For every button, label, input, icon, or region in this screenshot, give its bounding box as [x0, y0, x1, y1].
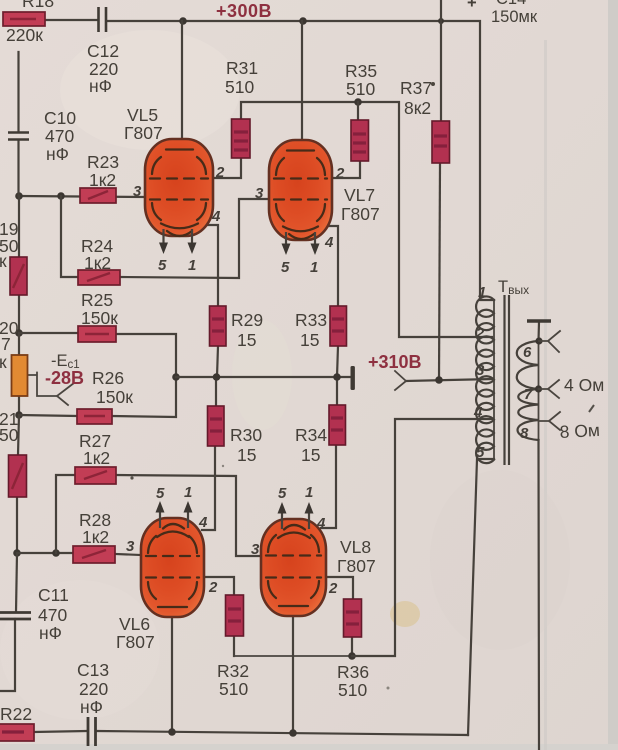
wire left rail C10 to R23 node [17, 141, 19, 196]
svg-text:С14: С14 [496, 0, 526, 8]
svg-text:4: 4 [473, 404, 483, 421]
svg-text:150к: 150к [81, 308, 118, 328]
wire C11 bottom lead [0, 619, 15, 691]
tick above 8 Ohm [589, 405, 594, 412]
terminal bar center node [351, 366, 355, 390]
svg-text:R32: R32 [217, 661, 249, 681]
svg-text:4: 4 [211, 208, 221, 225]
svg-text:5: 5 [156, 485, 165, 502]
node R23 rail junction [15, 192, 23, 200]
wire +310V line to tap3 [406, 379, 492, 381]
resistor R34 [329, 405, 346, 445]
svg-text:R22: R22 [0, 704, 32, 724]
svg-text:VL5: VL5 [127, 105, 158, 125]
svg-text:нФ: нФ [80, 697, 103, 717]
svg-text:15: 15 [300, 330, 319, 350]
node R35 top junction [354, 98, 362, 106]
tube VL6 [141, 501, 204, 617]
wire R36 bottom lead [351, 637, 353, 656]
wire rail R20 to R26 node [18, 396, 20, 415]
ground chassis symbol [527, 319, 551, 323]
svg-text:Г807: Г807 [116, 632, 155, 652]
wire anode VL6 [171, 610, 173, 732]
svg-text:VL8: VL8 [340, 537, 371, 557]
wire R28 right lead [115, 554, 141, 555]
svg-text:C12: C12 [87, 41, 119, 61]
svg-text:2: 2 [475, 325, 485, 342]
wire VL8 pin2 to R36 [326, 577, 353, 599]
svg-text:4: 4 [198, 514, 208, 531]
node VL8 anode junction [289, 729, 297, 737]
node center R29/R30 junction [213, 373, 221, 381]
svg-text:нФ: нФ [46, 144, 69, 164]
svg-text:470: 470 [45, 126, 74, 146]
wire anode VL5 [181, 21, 183, 150]
svg-text:1к2: 1к2 [84, 253, 111, 273]
node R28 rail junction [13, 549, 21, 557]
svg-text:VL7: VL7 [344, 185, 375, 205]
svg-text:R31: R31 [226, 58, 258, 78]
wire R32/R36 bus to transformer tap4 [234, 655, 352, 657]
node C14/R37 junction [438, 18, 444, 24]
svg-text:4: 4 [324, 234, 334, 251]
wire R32 bottom lead [233, 636, 235, 656]
svg-text:нФ: нФ [39, 623, 62, 643]
svg-text:к: к [0, 251, 7, 271]
svg-text:+: + [467, 0, 477, 12]
svg-text:6: 6 [523, 344, 532, 361]
resistor R19 [10, 257, 27, 295]
svg-text:50: 50 [0, 425, 19, 445]
wire R30 bottom to VL6 pin4 [202, 446, 215, 530]
resistor R25 [78, 326, 116, 342]
resistor R18 [3, 12, 45, 26]
capacitor C11 [0, 613, 31, 620]
svg-text:8: 8 [520, 425, 529, 442]
svg-text:2: 2 [215, 164, 225, 181]
svg-text:R35: R35 [345, 61, 377, 81]
svg-text:2: 2 [328, 580, 338, 597]
svg-text:3: 3 [251, 541, 260, 558]
svg-text:15: 15 [301, 445, 320, 465]
speck [222, 465, 224, 467]
wire VL5 pin2 to R31 [213, 158, 241, 178]
wire secondary bottom lead [537, 440, 540, 750]
svg-text:VL6: VL6 [119, 614, 150, 634]
svg-text:5: 5 [281, 259, 290, 276]
wire R29 bottom to center node [217, 346, 218, 377]
terminal arrow +310V feed [395, 371, 406, 390]
svg-text:8 Ом: 8 Ом [559, 420, 600, 442]
resistor R29 [210, 306, 227, 346]
resistor R20 [12, 355, 28, 396]
node R25 rail junction [15, 329, 23, 337]
svg-text:нФ: нФ [89, 76, 112, 96]
wire R19 to R25 node [18, 295, 20, 333]
svg-text:3: 3 [476, 362, 485, 379]
wire R30 top lead [215, 377, 217, 406]
speck [387, 687, 390, 690]
node secondary 4 Ohm junction [535, 385, 542, 392]
wire bus riser to tap4 [352, 419, 492, 656]
node +310V junction [435, 376, 443, 384]
resistor R30 [208, 406, 225, 446]
svg-text:R30: R30 [230, 425, 262, 445]
svg-text:к: к [0, 352, 7, 372]
resistor R31 [232, 119, 251, 158]
transformer Tvyh secondary winding [538, 341, 540, 440]
svg-text:R26: R26 [92, 368, 124, 388]
svg-text:150к: 150к [96, 387, 133, 407]
svg-text:5: 5 [476, 444, 485, 461]
wire center node line [176, 376, 352, 378]
svg-text:8к2: 8к2 [404, 98, 431, 118]
svg-text:7: 7 [524, 386, 533, 403]
wire C14 lead [440, 0, 442, 21]
tube VL7 [269, 140, 332, 255]
svg-text:2: 2 [208, 579, 218, 596]
wire VL5 pin4 to R29 [208, 225, 218, 306]
svg-text:C11: C11 [38, 585, 69, 605]
transformer Tvyh primary winding [493, 300, 495, 459]
wire R34 bottom to VL8 pin4 [321, 445, 336, 528]
svg-text:R37: R37 [400, 78, 432, 98]
wire rail R26 node to R21 [18, 415, 19, 455]
wire left rail R23 node to R19 [18, 196, 20, 257]
wire R34 top lead [336, 377, 338, 405]
wire R27 to VL8 pin3 [116, 475, 261, 556]
resistor R22 [0, 724, 34, 741]
resistor R23 [80, 188, 116, 203]
svg-text:5: 5 [158, 257, 167, 274]
wire R25 right to center node [116, 334, 176, 377]
wire anode VL7 [301, 21, 303, 151]
node anode VL7 junction [299, 17, 307, 25]
svg-text:R33: R33 [295, 310, 327, 330]
svg-text:1: 1 [310, 259, 318, 276]
wire R24 branch drop [61, 196, 78, 277]
wire VL7 pin4 to R33 [327, 226, 338, 306]
wire rail R25 node to R20 [18, 333, 20, 355]
svg-text:15: 15 [237, 445, 256, 465]
svg-text:3: 3 [133, 183, 142, 200]
svg-text:Г807: Г807 [341, 204, 380, 224]
svg-text:220: 220 [79, 679, 108, 699]
svg-text:2: 2 [335, 165, 345, 182]
svg-text:3: 3 [255, 185, 264, 202]
terminal arrow -28V input [27, 373, 74, 406]
svg-text:5: 5 [278, 485, 287, 502]
svg-text:+310В: +310В [368, 352, 422, 372]
svg-text:7: 7 [1, 334, 11, 354]
svg-text:4 Ом: 4 Ом [564, 375, 604, 395]
wire +300V rail to transformer pin1 [107, 21, 494, 300]
svg-text:Г807: Г807 [124, 123, 163, 143]
capacitor C10 [8, 133, 29, 140]
svg-text:1к2: 1к2 [83, 448, 110, 468]
resistor R36 [344, 599, 362, 637]
resistor R37 [432, 121, 450, 163]
wire R26 line [19, 415, 77, 416]
terminal arrow output top [539, 331, 560, 352]
capacitor C12 [99, 7, 107, 32]
svg-text:1к2: 1к2 [89, 170, 116, 190]
svg-text:1: 1 [478, 284, 486, 301]
svg-text:+300В: +300В [216, 1, 272, 21]
svg-text:R23: R23 [87, 152, 119, 172]
wire R37 bottom lead [439, 163, 440, 380]
wire R26 right to center node [112, 377, 176, 417]
wire R21 to R28 node [16, 497, 18, 553]
resistor R27 [75, 467, 116, 484]
resistor R32 [226, 595, 244, 636]
svg-text:510: 510 [225, 77, 254, 97]
node R26 rail junction [15, 411, 23, 419]
wire transformer pin5 to bottom rail [468, 459, 494, 735]
svg-text:R18: R18 [22, 0, 54, 11]
node anode VL5 junction [179, 17, 187, 25]
wire anode VL8 [292, 610, 294, 733]
wire screen bus R31-R35 to transformer tap2 [241, 102, 492, 337]
resistor R21 [9, 455, 27, 497]
node secondary top junction [535, 337, 542, 344]
terminal arrow 8 Ohm [539, 412, 561, 430]
resistor R24 [78, 270, 120, 285]
svg-text:510: 510 [346, 79, 375, 99]
node center tap node [172, 373, 180, 381]
svg-text:510: 510 [338, 680, 367, 700]
node R27 branch junction [52, 549, 60, 557]
svg-text:1: 1 [305, 484, 313, 501]
wire +300V rail top [45, 19, 98, 21]
wire R28 line to VL6 pin3 [17, 552, 73, 554]
speck [130, 476, 133, 479]
capacitor C13 [88, 717, 96, 746]
transformer core [503, 295, 505, 465]
svg-text:R29: R29 [231, 310, 263, 330]
node center R33/R34 junction [333, 373, 341, 381]
wire left rail upper [17, 52, 19, 131]
svg-text:C10: C10 [44, 108, 76, 128]
wire R22 to C13 [34, 731, 86, 732]
resistor R26 [77, 409, 112, 424]
wire rail R28 node to C11 [16, 553, 17, 612]
wire R33 bottom to center node [337, 346, 338, 377]
svg-text:510: 510 [219, 679, 248, 699]
wire R35 top lead [357, 102, 359, 120]
wire bottom rail [97, 731, 468, 735]
wire R27 branch riser [56, 475, 75, 553]
wire secondary top to ground [537, 322, 540, 341]
svg-text:-28В: -28В [45, 368, 84, 388]
node R36 bus junction [348, 652, 356, 660]
svg-text:1: 1 [184, 484, 192, 501]
wire R24 to VL7 pin3 [120, 199, 269, 278]
svg-text:C13: C13 [77, 660, 109, 680]
svg-text:150мк: 150мк [491, 8, 538, 26]
terminal arrow 4 Ohm [539, 380, 560, 398]
tube VL8 [261, 502, 326, 616]
svg-text:R34: R34 [295, 425, 327, 445]
wire R25 line [19, 332, 78, 334]
svg-text:3: 3 [126, 538, 135, 555]
node VL6 anode junction [168, 728, 176, 736]
svg-text:R25: R25 [81, 290, 113, 310]
wire R37 lead to +310V node [440, 21, 442, 121]
resistor R28 [73, 546, 115, 563]
resistor R33 [330, 306, 347, 346]
wire grid line R23 to VL5 pin3 [19, 196, 147, 197]
svg-text:R36: R36 [337, 662, 369, 682]
svg-text:Г807: Г807 [337, 556, 376, 576]
node R24 branch junction [57, 192, 65, 200]
resistor R35 [351, 120, 369, 161]
svg-text:1: 1 [188, 257, 196, 274]
svg-text:4: 4 [316, 515, 326, 532]
svg-text:220к: 220к [6, 25, 43, 45]
wire VL6 pin2 to R32 [204, 577, 234, 595]
svg-text:15: 15 [237, 330, 256, 350]
svg-text:1к2: 1к2 [82, 527, 109, 547]
svg-text:470: 470 [38, 605, 67, 625]
tube VL5 [145, 139, 213, 254]
wire VL7 pin2 to R35 [332, 161, 360, 178]
